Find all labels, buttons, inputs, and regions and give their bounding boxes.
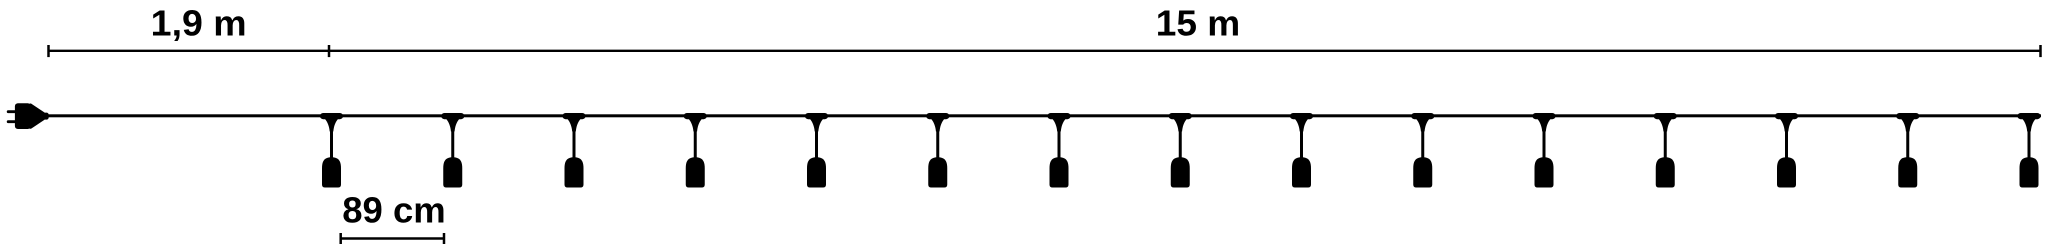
svg-text:89 cm: 89 cm xyxy=(342,190,446,230)
main cable wire xyxy=(47,114,2041,117)
hanger connector T4 on cable xyxy=(684,113,707,132)
top dimension tick right xyxy=(2039,45,2042,57)
drop wire W12 xyxy=(1664,126,1667,159)
hanger connector T3 on cable xyxy=(563,113,586,132)
hanger connector T11 on cable xyxy=(1533,113,1556,132)
hanger connector T1 on cable xyxy=(320,113,343,132)
top dimension line (1,9 m + 15 m spans) xyxy=(49,50,2041,52)
hanger connector T14 on cable xyxy=(1896,113,1919,132)
drop wire W13 xyxy=(1785,126,1788,159)
hanger connector T2 on cable xyxy=(441,113,464,132)
lamp socket S11 xyxy=(1535,157,1554,187)
drop wire W3 xyxy=(573,126,576,159)
drop wire W15 xyxy=(2028,126,2031,159)
lamp socket S5 xyxy=(807,157,826,187)
top dimension tick left xyxy=(47,45,50,57)
drop wire W11 xyxy=(1543,126,1546,159)
lamp socket S6 xyxy=(928,157,947,187)
top dimension tick middle xyxy=(328,45,331,57)
drop wire W5 xyxy=(815,126,818,159)
drop wire W10 xyxy=(1421,126,1424,159)
drop wire W2 xyxy=(451,126,454,159)
drop wire W1 xyxy=(330,126,333,159)
lamp socket S8 xyxy=(1171,157,1190,187)
hanger connector T9 on cable xyxy=(1290,113,1313,132)
drop wire W14 xyxy=(1906,126,1909,159)
hanger connector T7 on cable xyxy=(1048,113,1071,132)
svg-text:1,9 m: 1,9 m xyxy=(151,4,247,44)
hanger connector T13 on cable xyxy=(1775,113,1798,132)
lamp socket S14 xyxy=(1898,157,1917,187)
hanger connector T10 on cable xyxy=(1411,113,1434,132)
hanger connector T6 on cable xyxy=(926,113,949,132)
lamp socket S12 xyxy=(1656,157,1675,187)
hanger connector T12 on cable xyxy=(1654,113,1677,132)
lamp socket S10 xyxy=(1413,157,1432,187)
bottom dimension tick left xyxy=(339,233,342,244)
lamp socket S9 xyxy=(1292,157,1311,187)
lamp socket S3 xyxy=(565,157,584,187)
lamp socket S2 xyxy=(443,157,462,187)
bottom dimension line (89 cm span) xyxy=(341,237,444,239)
hanger connector T15 on cable xyxy=(2018,113,2041,132)
lamp socket S15 xyxy=(2020,157,2039,187)
hanger connector T5 on cable xyxy=(805,113,828,132)
bottom dimension tick right xyxy=(443,233,446,244)
drop wire W4 xyxy=(694,126,697,159)
hanger connector T8 on cable xyxy=(1169,113,1192,132)
drop wire W8 xyxy=(1179,126,1182,159)
lamp socket S7 xyxy=(1050,157,1069,187)
drop wire W6 xyxy=(936,126,939,159)
lamp socket S1 xyxy=(322,157,341,187)
drop wire W7 xyxy=(1058,126,1061,159)
lamp socket S4 xyxy=(686,157,705,187)
power plug xyxy=(7,103,49,129)
svg-text:15 m: 15 m xyxy=(1156,4,1241,44)
drop wire W9 xyxy=(1300,126,1303,159)
lamp socket S13 xyxy=(1777,157,1796,187)
